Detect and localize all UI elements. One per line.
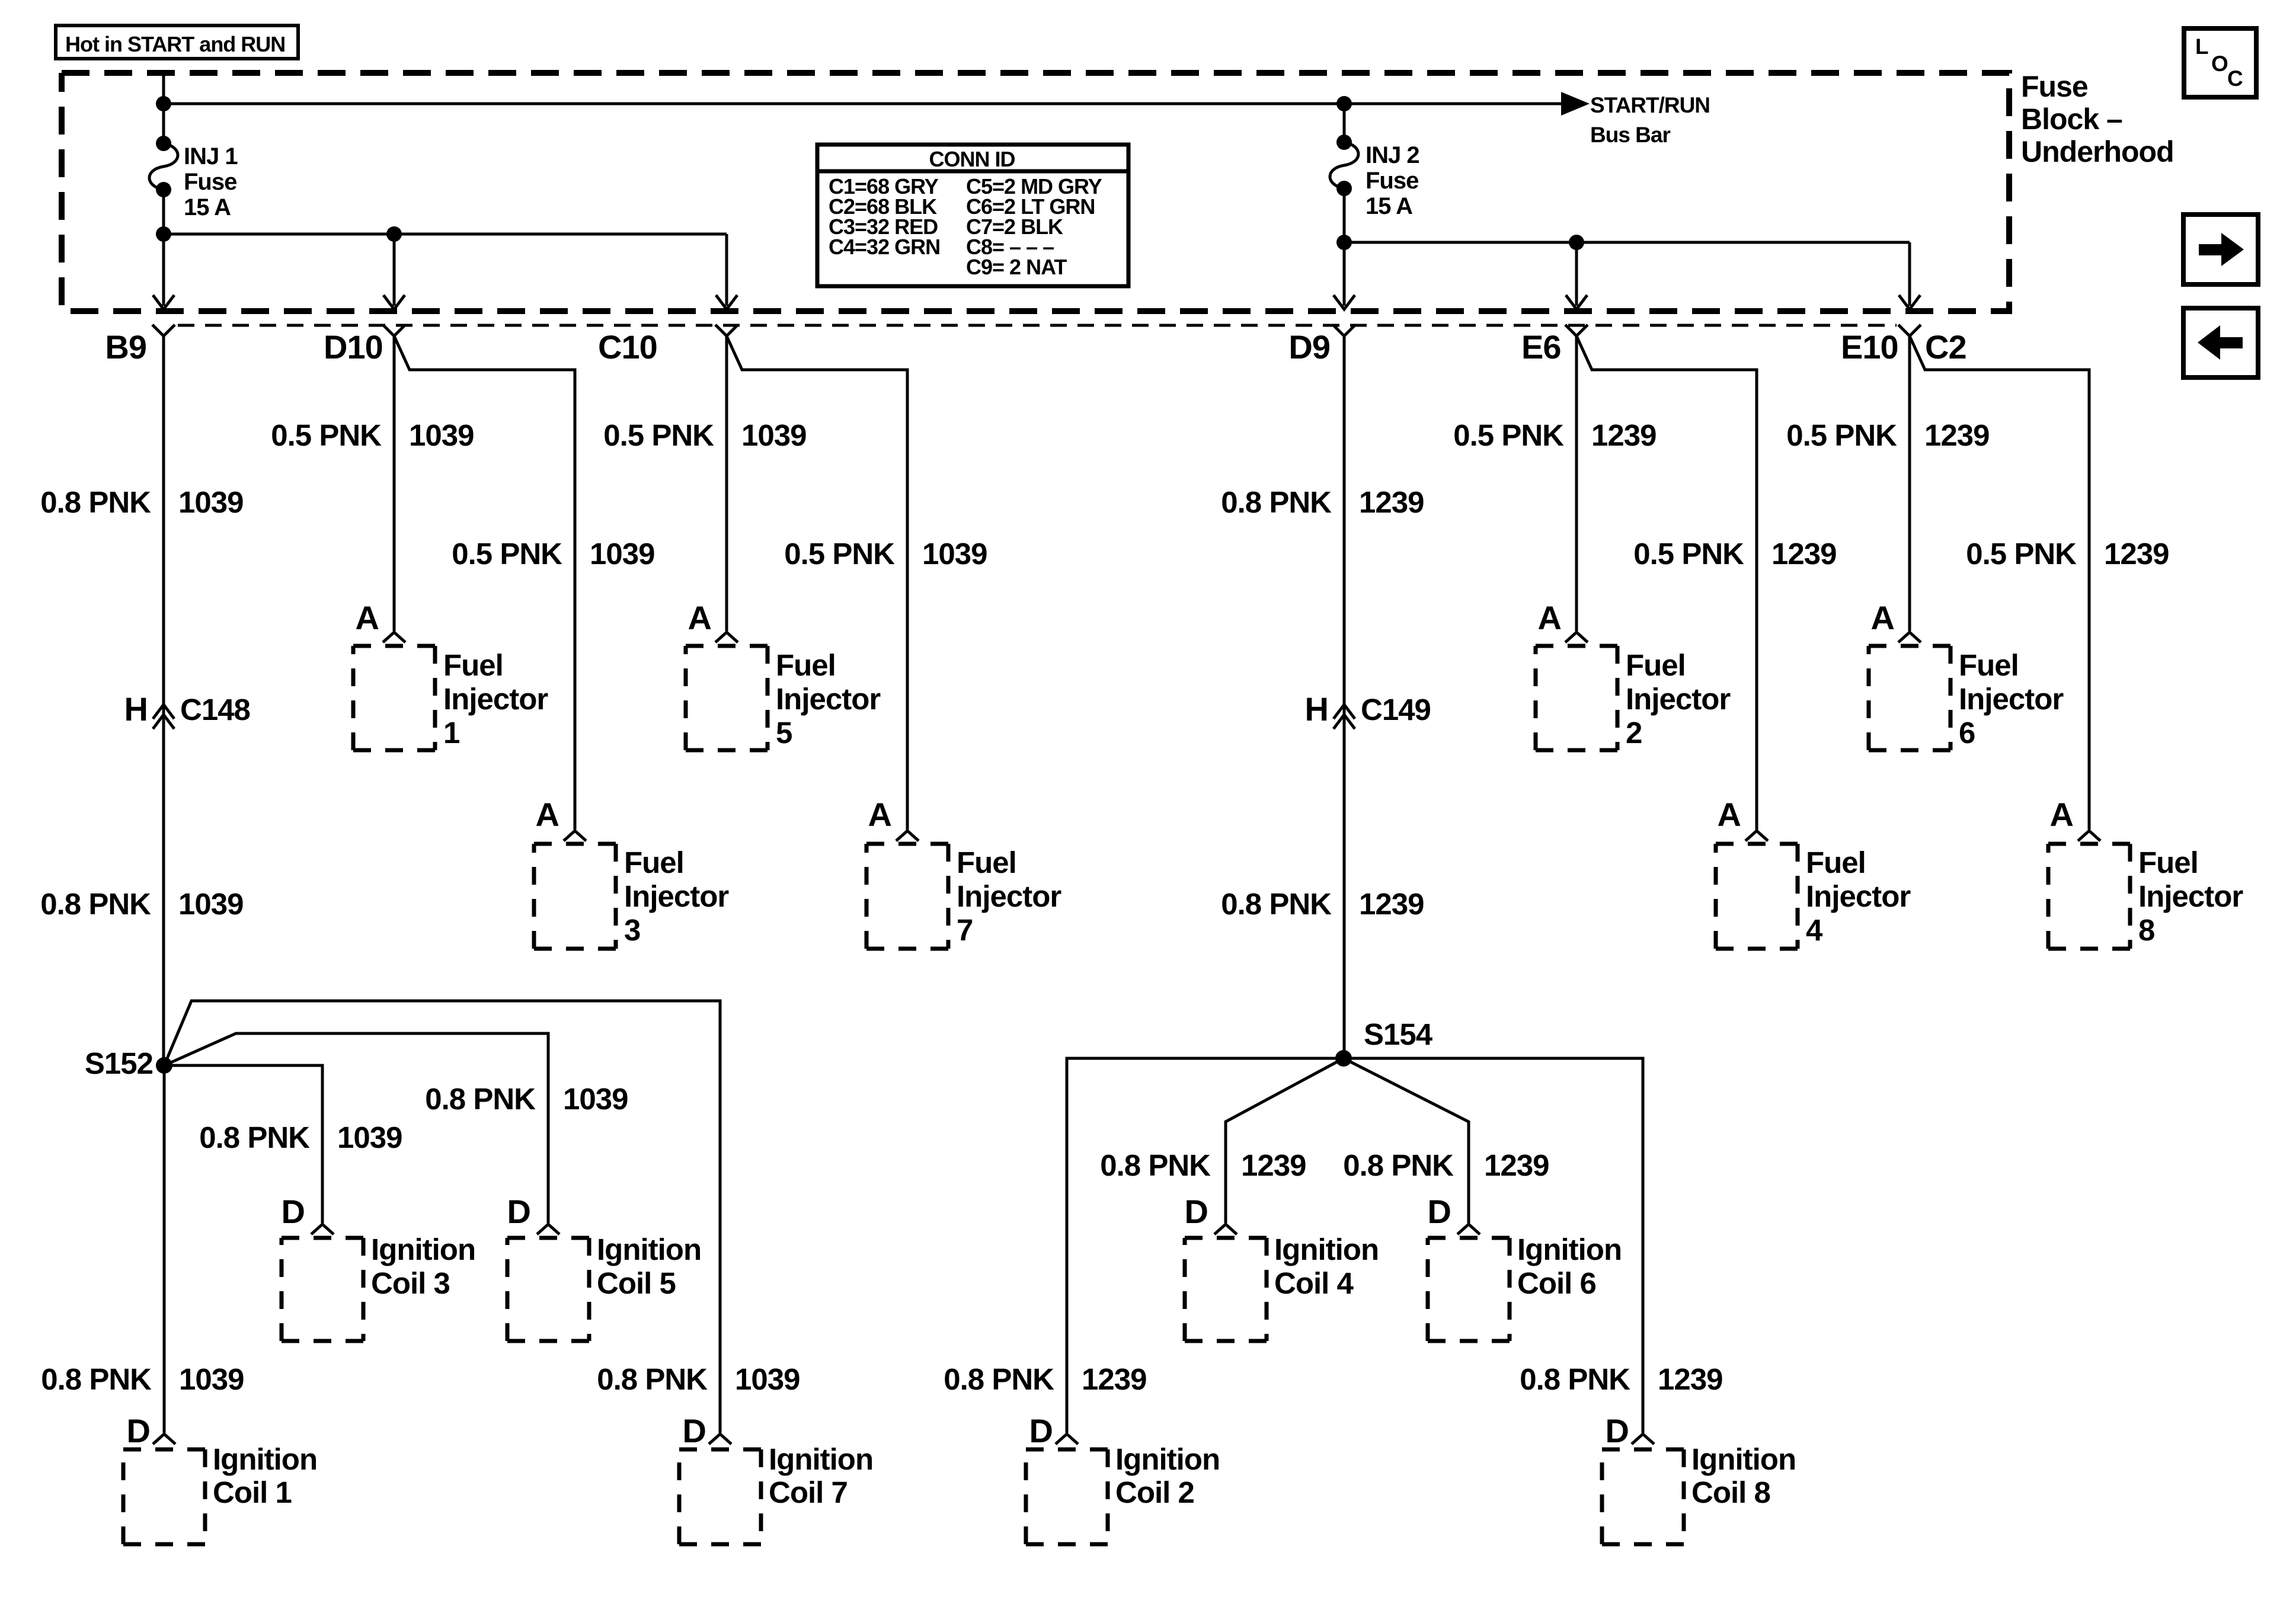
svg-text:C9= 2 NAT: C9= 2 NAT [966, 255, 1067, 279]
svg-text:START/RUN: START/RUN [1590, 93, 1710, 117]
svg-text:D: D [1606, 1412, 1629, 1449]
svg-text:Hot in START and RUN: Hot in START and RUN [65, 32, 285, 56]
svg-text:D: D [127, 1412, 150, 1449]
svg-text:8: 8 [2138, 913, 2154, 947]
svg-text:D9: D9 [1288, 328, 1330, 366]
svg-text:Ignition: Ignition [597, 1233, 701, 1266]
svg-text:1039: 1039 [590, 537, 654, 571]
svg-text:A: A [2050, 796, 2073, 833]
svg-text:0.5 PNK: 0.5 PNK [1453, 418, 1564, 452]
svg-text:0.8 PNK: 0.8 PNK [40, 887, 151, 921]
svg-text:Ignition: Ignition [213, 1442, 317, 1476]
svg-text:Fuse: Fuse [184, 169, 236, 195]
svg-text:1039: 1039 [409, 418, 474, 452]
svg-text:0.8 PNK: 0.8 PNK [41, 1362, 152, 1396]
svg-text:D: D [1185, 1193, 1208, 1230]
svg-text:Injector: Injector [776, 682, 881, 716]
svg-text:0.8 PNK: 0.8 PNK [1520, 1362, 1630, 1396]
svg-text:C149: C149 [1361, 693, 1431, 726]
svg-text:Ignition: Ignition [1691, 1442, 1796, 1476]
svg-text:L: L [2195, 34, 2208, 59]
svg-text:Fuse: Fuse [2021, 70, 2088, 103]
svg-text:Ignition: Ignition [769, 1442, 873, 1476]
svg-text:5: 5 [776, 716, 792, 750]
svg-text:6: 6 [1959, 716, 1975, 750]
svg-text:S154: S154 [1364, 1017, 1433, 1051]
svg-text:D: D [507, 1193, 530, 1230]
svg-text:A: A [536, 796, 559, 833]
svg-text:4: 4 [1806, 913, 1823, 947]
svg-text:D10: D10 [324, 328, 383, 366]
svg-text:1239: 1239 [1771, 537, 1836, 571]
svg-text:E6: E6 [1521, 328, 1561, 366]
svg-text:0.5 PNK: 0.5 PNK [1786, 418, 1897, 452]
svg-text:Fuel: Fuel [1959, 648, 2019, 682]
svg-text:7: 7 [957, 913, 973, 947]
svg-text:O: O [2211, 52, 2228, 76]
svg-text:Coil 3: Coil 3 [371, 1266, 450, 1300]
svg-text:C2: C2 [1925, 328, 1966, 366]
svg-text:A: A [868, 796, 891, 833]
svg-text:H: H [124, 690, 148, 728]
svg-text:Coil 6: Coil 6 [1517, 1266, 1596, 1300]
svg-text:A: A [356, 599, 379, 636]
svg-text:15 A: 15 A [1366, 193, 1412, 219]
svg-text:1039: 1039 [735, 1362, 800, 1396]
svg-text:0.5 PNK: 0.5 PNK [1966, 537, 2077, 571]
svg-text:S152: S152 [85, 1046, 153, 1080]
svg-text:Ignition: Ignition [1115, 1442, 1220, 1476]
svg-text:0.8 PNK: 0.8 PNK [597, 1362, 708, 1396]
svg-text:0.8 PNK: 0.8 PNK [199, 1121, 310, 1154]
svg-text:INJ 1: INJ 1 [184, 143, 238, 169]
svg-text:1239: 1239 [1359, 485, 1424, 519]
svg-text:Injector: Injector [957, 879, 1061, 913]
svg-text:15 A: 15 A [184, 194, 231, 220]
svg-text:Ignition: Ignition [1274, 1233, 1379, 1266]
svg-text:C: C [2227, 66, 2243, 91]
svg-text:Injector: Injector [1806, 879, 1911, 913]
svg-text:Fuel: Fuel [624, 846, 684, 879]
svg-text:0.8 PNK: 0.8 PNK [944, 1362, 1054, 1396]
svg-text:1239: 1239 [1359, 887, 1424, 921]
svg-text:Injector: Injector [624, 879, 729, 913]
svg-text:1039: 1039 [178, 887, 243, 921]
svg-text:CONN ID: CONN ID [929, 147, 1015, 171]
svg-text:Fuel: Fuel [957, 846, 1016, 879]
svg-text:Injector: Injector [1626, 682, 1731, 716]
svg-text:C10: C10 [598, 328, 657, 366]
svg-text:A: A [688, 599, 711, 636]
svg-text:D: D [282, 1193, 305, 1230]
svg-text:A: A [1538, 599, 1561, 636]
svg-text:Injector: Injector [443, 682, 548, 716]
svg-text:Coil 7: Coil 7 [769, 1475, 848, 1509]
svg-text:2: 2 [1626, 716, 1642, 750]
svg-text:Block –: Block – [2021, 103, 2122, 136]
svg-text:C4=32 GRN: C4=32 GRN [829, 235, 940, 259]
svg-text:1039: 1039 [179, 1362, 244, 1396]
svg-text:3: 3 [624, 913, 640, 947]
svg-text:Ignition: Ignition [1517, 1233, 1622, 1266]
svg-text:Injector: Injector [1959, 682, 2064, 716]
svg-text:Bus Bar: Bus Bar [1590, 123, 1670, 147]
svg-text:Fuel: Fuel [1626, 648, 1686, 682]
svg-text:1039: 1039 [178, 485, 243, 519]
svg-text:1239: 1239 [1241, 1148, 1306, 1182]
svg-text:0.5 PNK: 0.5 PNK [452, 537, 562, 571]
svg-text:0.8 PNK: 0.8 PNK [1221, 485, 1332, 519]
svg-text:Fuel: Fuel [1806, 846, 1866, 879]
svg-text:1239: 1239 [1591, 418, 1656, 452]
svg-text:A: A [1718, 796, 1741, 833]
svg-text:Coil 2: Coil 2 [1115, 1475, 1194, 1509]
svg-text:E10: E10 [1841, 328, 1898, 366]
svg-text:0.8 PNK: 0.8 PNK [40, 485, 151, 519]
svg-text:Injector: Injector [2138, 879, 2243, 913]
svg-text:1239: 1239 [1658, 1362, 1722, 1396]
svg-text:Coil 8: Coil 8 [1691, 1475, 1770, 1509]
svg-text:B9: B9 [105, 328, 146, 366]
svg-text:D: D [1428, 1193, 1451, 1230]
svg-text:D: D [683, 1412, 706, 1449]
svg-text:1239: 1239 [1924, 418, 1989, 452]
svg-text:1239: 1239 [1082, 1362, 1146, 1396]
svg-text:1239: 1239 [2104, 537, 2169, 571]
svg-text:A: A [1871, 599, 1894, 636]
svg-text:C148: C148 [180, 693, 250, 726]
svg-text:0.8 PNK: 0.8 PNK [1100, 1148, 1211, 1182]
svg-text:Underhood: Underhood [2021, 135, 2174, 168]
svg-text:1: 1 [443, 716, 459, 750]
svg-text:1239: 1239 [1484, 1148, 1549, 1182]
svg-text:0.5 PNK: 0.5 PNK [603, 418, 714, 452]
svg-text:0.8 PNK: 0.8 PNK [1221, 887, 1332, 921]
svg-text:0.5 PNK: 0.5 PNK [271, 418, 382, 452]
svg-text:1039: 1039 [563, 1082, 628, 1116]
svg-text:Coil 1: Coil 1 [213, 1475, 292, 1509]
svg-text:0.5 PNK: 0.5 PNK [784, 537, 895, 571]
svg-text:0.8 PNK: 0.8 PNK [1343, 1148, 1454, 1182]
svg-text:Fuel: Fuel [776, 648, 836, 682]
svg-text:Ignition: Ignition [371, 1233, 475, 1266]
svg-text:Fuel: Fuel [2138, 846, 2198, 879]
svg-text:1039: 1039 [922, 537, 987, 571]
svg-text:1039: 1039 [337, 1121, 402, 1154]
svg-text:D: D [1029, 1412, 1053, 1449]
svg-text:INJ 2: INJ 2 [1366, 142, 1419, 168]
svg-text:Coil 4: Coil 4 [1274, 1266, 1354, 1300]
svg-text:0.8 PNK: 0.8 PNK [425, 1082, 536, 1116]
svg-text:H: H [1305, 690, 1328, 728]
svg-text:0.5 PNK: 0.5 PNK [1633, 537, 1744, 571]
svg-text:Fuse: Fuse [1366, 168, 1418, 194]
svg-text:1039: 1039 [741, 418, 806, 452]
svg-text:Coil 5: Coil 5 [597, 1266, 676, 1300]
svg-text:Fuel: Fuel [443, 648, 503, 682]
